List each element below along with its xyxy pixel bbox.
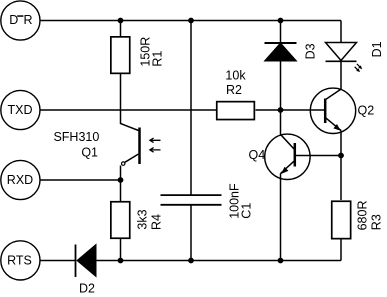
svg-text:680R: 680R <box>355 201 369 231</box>
phototransistor Q1 <box>53 128 160 166</box>
svg-text:RXD: RXD <box>7 173 33 187</box>
wire D3 top lead <box>280 21 282 44</box>
wire Q1 emitter lead <box>120 166 122 181</box>
wire RXD net <box>40 179 121 181</box>
wire R3 bottom lead <box>340 240 342 261</box>
svg-text:R: R <box>24 13 33 27</box>
junction top D3 <box>278 18 284 24</box>
wire D3 bottom lead <box>280 61 282 110</box>
junction top C1 <box>188 18 194 24</box>
svg-text:Q4: Q4 <box>249 148 266 162</box>
svg-text:SFH310: SFH310 <box>53 130 99 144</box>
svg-text:D2: D2 <box>79 282 95 296</box>
LED D1 <box>326 41 385 72</box>
wire Q4 emitter lead <box>280 174 282 261</box>
transistor Q2 <box>310 88 374 133</box>
wire D1 top lead <box>340 21 342 43</box>
svg-text:D1: D1 <box>370 41 384 57</box>
svg-text:TXD: TXD <box>8 103 33 117</box>
connector RXD <box>1 160 40 199</box>
wire RTS to D2 <box>40 260 76 262</box>
connector DTR <box>1 1 40 40</box>
connector TXD <box>1 90 40 129</box>
diode D2 <box>76 245 97 296</box>
wire R1 top lead <box>120 21 122 37</box>
svg-text:D3: D3 <box>304 43 318 59</box>
resistor R2 <box>217 69 255 120</box>
resistor R4 <box>111 202 164 239</box>
junction bottom Q4 <box>278 258 284 264</box>
wire Q4 base to junction <box>296 155 341 157</box>
svg-text:D: D <box>9 13 18 27</box>
svg-text:R4: R4 <box>149 214 163 230</box>
wire R4 bottom lead <box>120 239 122 261</box>
capacitor C1 <box>161 183 254 219</box>
svg-text:3k3: 3k3 <box>136 209 150 229</box>
wire C1 bottom lead <box>190 205 192 261</box>
svg-text:RTS: RTS <box>7 253 32 267</box>
resistor R1 <box>111 37 165 74</box>
svg-text:R1: R1 <box>151 51 165 67</box>
wire top net <box>40 20 341 22</box>
wire R4 top lead <box>120 180 122 201</box>
resistor R3 <box>332 201 384 239</box>
junction bottom R4 <box>118 258 124 264</box>
junction Q2 emitter / R3 / Q4 base <box>338 153 344 159</box>
transistor Q4 <box>249 134 311 179</box>
svg-text:Q1: Q1 <box>81 146 98 160</box>
wire Q2 emitter lead <box>340 131 342 156</box>
svg-text:R3: R3 <box>369 214 383 230</box>
wire bottom net <box>96 260 341 262</box>
junction RXD R4 <box>118 177 124 183</box>
wire C1 top lead <box>190 21 192 196</box>
wire TXD net <box>40 109 216 111</box>
wire D1 to Q2 collector <box>326 61 341 99</box>
wire R1 bottom lead / Q1 collector <box>121 74 139 131</box>
svg-text:Q2: Q2 <box>358 104 375 118</box>
junction top R1 <box>118 18 124 24</box>
wire Q4 collector <box>281 110 295 150</box>
diode D3 <box>265 43 318 61</box>
wire R3 top lead <box>340 156 342 201</box>
junction TXD D3 <box>278 107 284 113</box>
svg-text:C1: C1 <box>240 203 254 219</box>
svg-text:R2: R2 <box>226 83 242 97</box>
junction bottom C1 <box>188 258 194 264</box>
connector RTS <box>1 241 40 280</box>
svg-text:10k: 10k <box>225 69 246 83</box>
wire R2 to Q2 base <box>256 109 326 111</box>
